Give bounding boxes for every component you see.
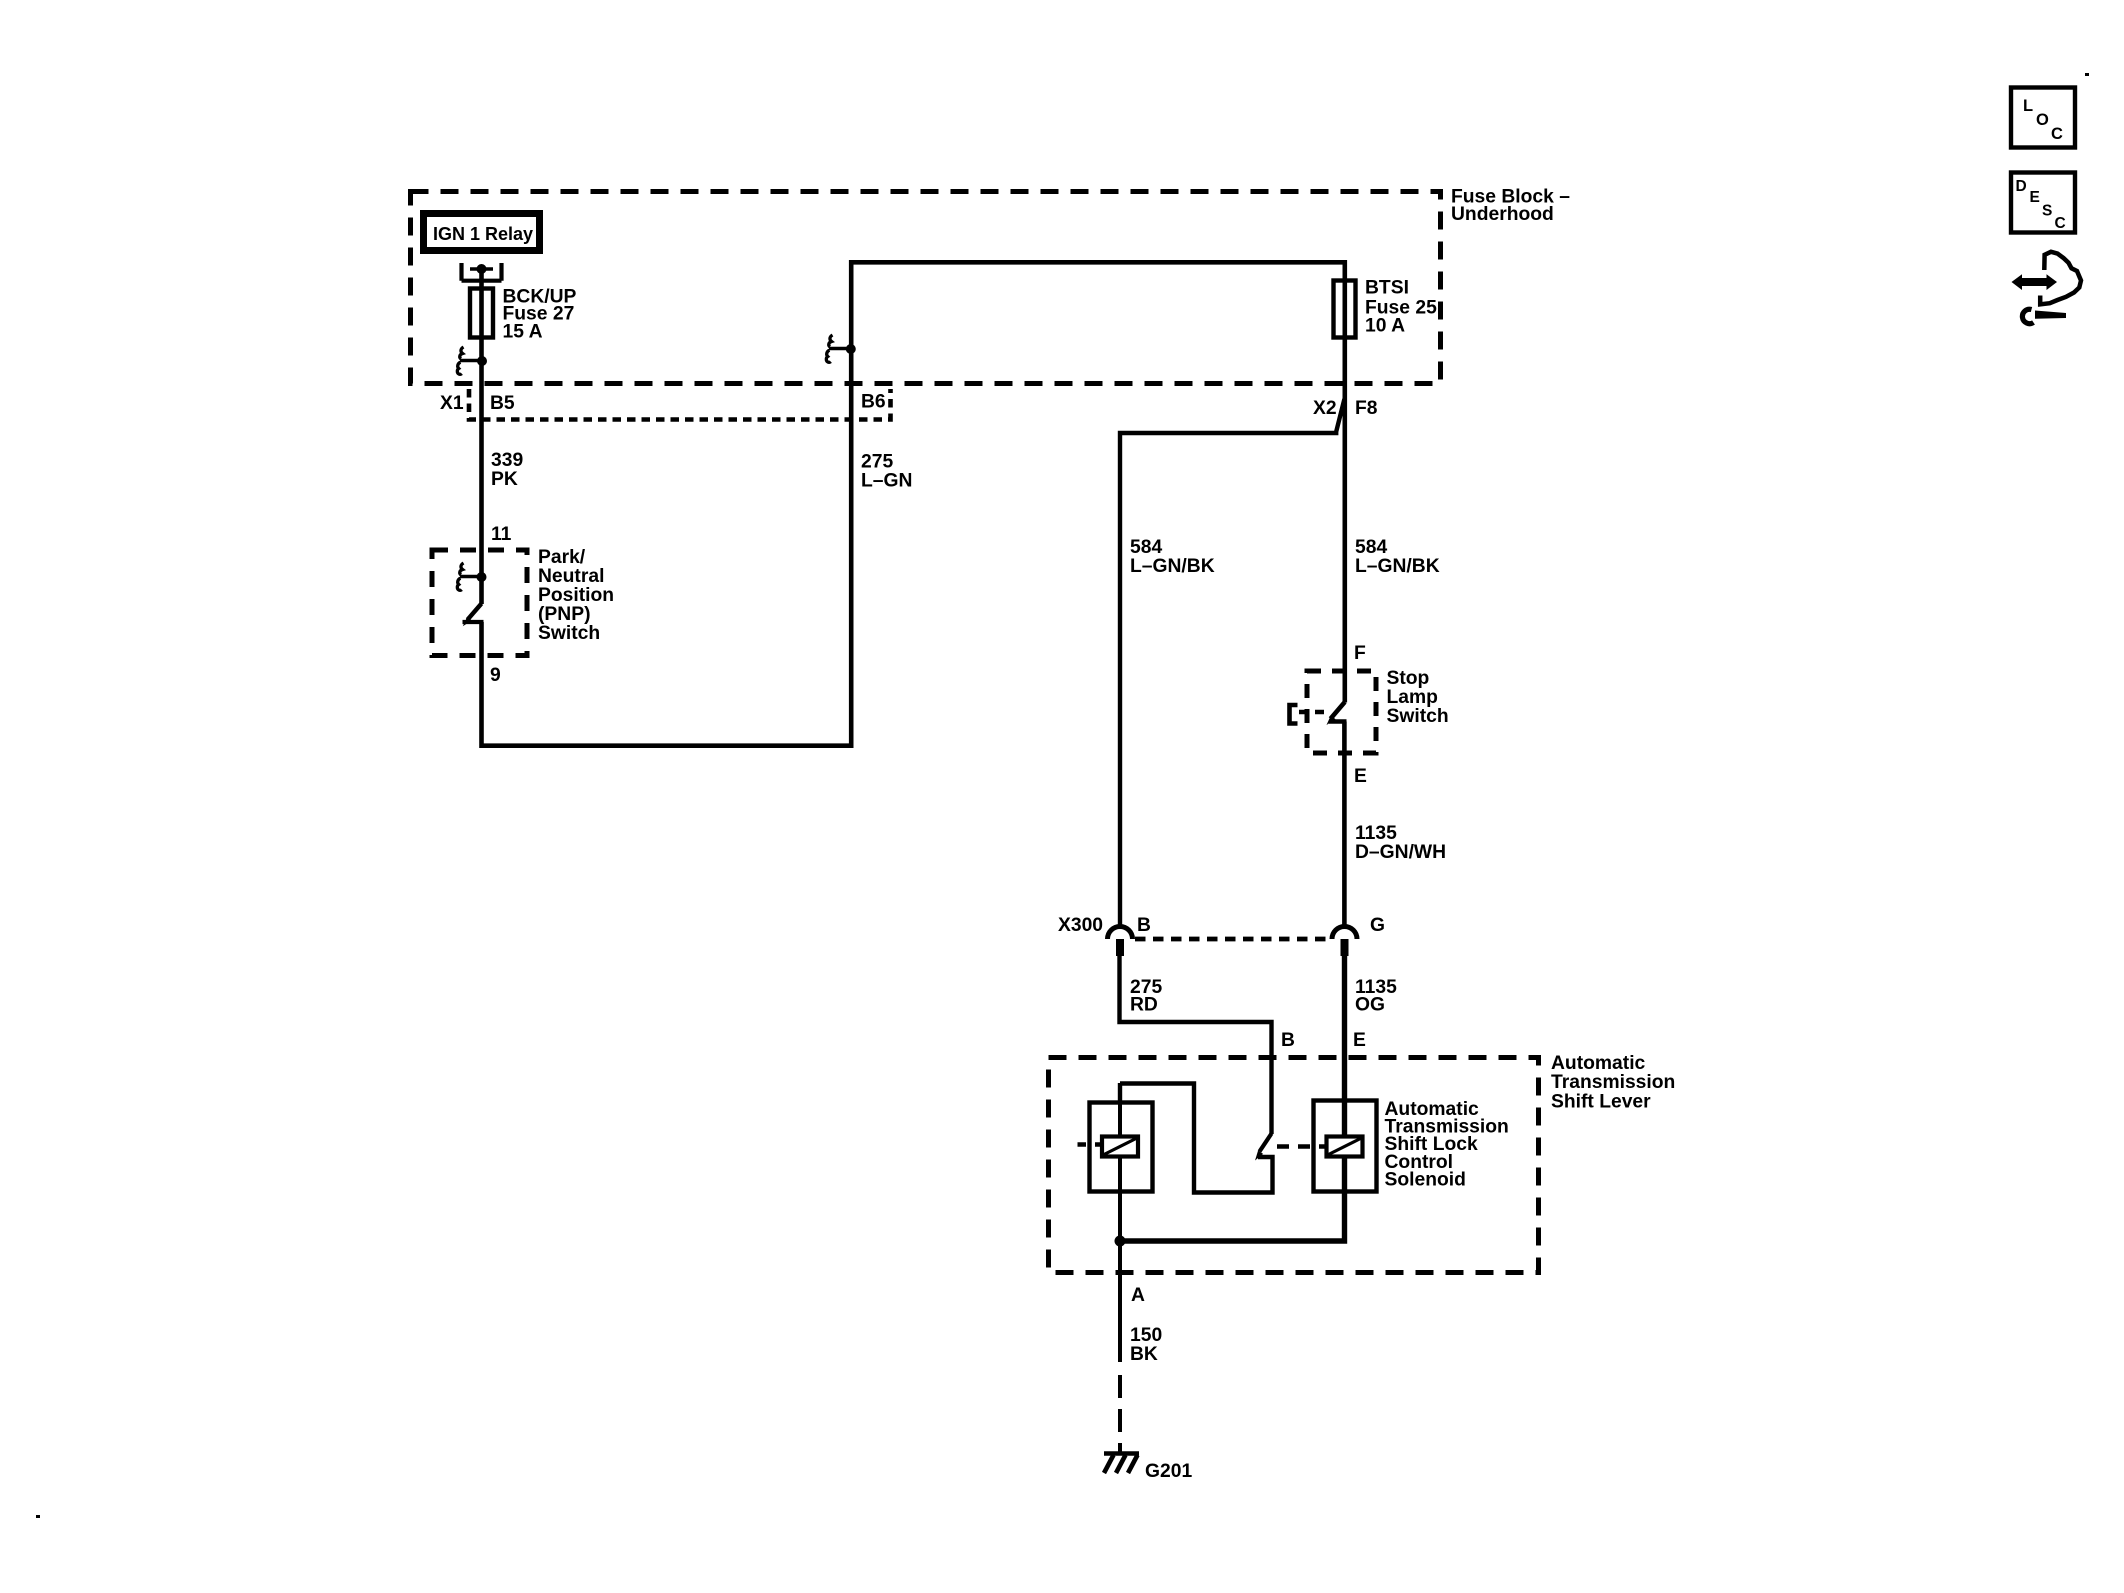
- label: B (shift lever pin): [1281, 1030, 1295, 1051]
- svg-text:OG: OG: [1355, 995, 1385, 1016]
- svg-text:G201: G201: [1145, 1461, 1192, 1482]
- splice terminal below fuse 27 (curl + dot): [457, 347, 487, 374]
- label: Stop Lamp Switch: [1387, 668, 1449, 727]
- wire: contact path from left solenoid top to switch lower contact: [1120, 1083, 1273, 1193]
- svg-text:B5: B5: [490, 393, 515, 414]
- label: X2 F8: [1313, 398, 1378, 419]
- svg-text:150: 150: [1130, 1325, 1162, 1346]
- svg-text:F: F: [1354, 643, 1366, 664]
- splice terminal at B6 inside fuse block (curl + dot): [826, 335, 855, 362]
- svg-text:E: E: [2030, 189, 2040, 206]
- svg-text:F8: F8: [1355, 398, 1378, 419]
- svg-text:Shift Lever: Shift Lever: [1551, 1092, 1651, 1113]
- svg-text:B6: B6: [861, 392, 886, 413]
- label: 584 L-GN/BK (left): [1130, 537, 1215, 577]
- stray scan dot top right: [2085, 73, 2089, 76]
- svg-text:L–GN/BK: L–GN/BK: [1355, 556, 1440, 577]
- label: G201: [1145, 1461, 1192, 1482]
- svg-text:E: E: [1353, 1030, 1366, 1051]
- label: X1 B5: [440, 393, 515, 414]
- svg-text:PK: PK: [491, 469, 518, 490]
- wire: 584 L-GN/BK branch from F8 junction left and down to X300 pin B: [1120, 399, 1344, 925]
- svg-text:RD: RD: [1130, 995, 1158, 1016]
- connector X300 dotted line: [1135, 937, 1329, 942]
- svg-text:X2: X2: [1313, 398, 1337, 419]
- label: 11 (PNP pin): [491, 524, 512, 545]
- label: B (X300 pin): [1137, 915, 1151, 936]
- svg-text:Stop: Stop: [1387, 668, 1430, 689]
- svg-text:Lamp: Lamp: [1387, 687, 1438, 708]
- label: G (X300 pin): [1370, 915, 1385, 936]
- stray scan dot bottom left: [36, 1515, 40, 1518]
- wire: left solenoid through-wire down to ground junction: [1118, 1100, 1122, 1362]
- svg-text:339: 339: [491, 450, 523, 471]
- label: 150 BK: [1130, 1325, 1162, 1365]
- svg-text:C: C: [2051, 125, 2063, 143]
- label: 275 L-GN: [861, 452, 912, 492]
- svg-text:C: C: [2055, 215, 2066, 232]
- svg-text:Neutral: Neutral: [538, 566, 604, 587]
- wire: 1135 OG from X300 G down to shift lever pin E (thick): [1120, 956, 1345, 1241]
- label: X300: [1058, 915, 1103, 936]
- connector X1/B5-B6 dotted line: [469, 389, 891, 420]
- svg-text:275: 275: [861, 452, 893, 473]
- right solenoid outer box: [1314, 1101, 1377, 1192]
- svg-text:BK: BK: [1130, 1344, 1158, 1365]
- label: 275 RD: [1130, 977, 1162, 1016]
- svg-text:O: O: [2036, 111, 2049, 129]
- svg-text:X300: X300: [1058, 915, 1103, 936]
- svg-text:Automatic: Automatic: [1551, 1053, 1646, 1074]
- svg-text:15 A: 15 A: [503, 322, 543, 343]
- left solenoid outer box: [1090, 1103, 1153, 1192]
- label: 339 PK: [491, 450, 523, 490]
- wire: dashed ground lead: [1118, 1375, 1122, 1452]
- svg-text:Park/: Park/: [538, 547, 586, 568]
- svg-text:S: S: [2042, 203, 2052, 220]
- relay contact terminal (cup bracket with dot): [462, 263, 502, 281]
- shift lock switch blade with arrow: [1255, 1134, 1272, 1161]
- svg-text:584: 584: [1355, 537, 1387, 558]
- label: Fuse Block - Underhood: [1451, 187, 1570, 226]
- label: BTSI Fuse 25 10 A: [1365, 278, 1437, 337]
- label: E (shift lever pin): [1353, 1030, 1366, 1051]
- svg-text:L–GN: L–GN: [861, 471, 912, 492]
- svg-text:BTSI: BTSI: [1365, 278, 1409, 299]
- connector X300 right half-circle (pin G): [1332, 926, 1357, 956]
- label: E (stop lamp switch pin): [1354, 766, 1367, 787]
- stop lamp switch dashed box: [1307, 671, 1376, 753]
- svg-text:Transmission: Transmission: [1551, 1072, 1675, 1093]
- label: Park/Neutral Position (PNP) Switch: [538, 547, 614, 644]
- svg-text:584: 584: [1130, 537, 1162, 558]
- svg-text:D: D: [2016, 178, 2027, 195]
- svg-text:Switch: Switch: [1387, 706, 1449, 727]
- IGN 1 Relay label box: [424, 214, 540, 251]
- PNP switch dashed box: [432, 550, 527, 656]
- ground symbol G201: [1104, 1454, 1139, 1474]
- junction dot at ground wire: [1115, 1236, 1126, 1247]
- stop lamp switch blade with arrow: [1327, 702, 1347, 725]
- mechanical linkage dashed (blade to right solenoid): [1277, 1144, 1326, 1149]
- svg-text:Underhood: Underhood: [1451, 204, 1554, 225]
- label: BCK/UP Fuse 27 15 A: [503, 287, 577, 343]
- svg-text:Switch: Switch: [538, 623, 600, 644]
- label: B6: [861, 392, 886, 413]
- label: F (stop lamp switch pin): [1354, 643, 1366, 664]
- svg-text:L: L: [2023, 97, 2033, 115]
- right solenoid coil (box with diagonal): [1327, 1137, 1363, 1157]
- left solenoid coil (box with diagonal): [1102, 1137, 1138, 1157]
- svg-text:1135: 1135: [1355, 823, 1397, 844]
- svg-text:D–GN/WH: D–GN/WH: [1355, 842, 1446, 863]
- svg-text:E: E: [1354, 766, 1367, 787]
- stop lamp switch brake pedal bracket and linkage: [1290, 705, 1325, 724]
- wire: 275 RD from X300 B down and right to shift lever pin B: [1120, 956, 1272, 1134]
- svg-text:B: B: [1137, 915, 1151, 936]
- wire: stop lamp switch output E down to X300 pin G: [1342, 722, 1347, 926]
- mechanical linkage dashes left of left solenoid: [1078, 1142, 1104, 1147]
- svg-text:Position: Position: [538, 585, 614, 606]
- fuse F25 symbol (BTSI): [1334, 281, 1356, 338]
- automatic transmission shift lever dashed box: [1049, 1058, 1539, 1273]
- svg-text:A: A: [1131, 1285, 1145, 1306]
- wire: 339 PK circuit from IGN 1 relay down to PNP switch: [479, 267, 484, 604]
- LOC icon box: [2011, 88, 2075, 148]
- svg-text:Solenoid: Solenoid: [1385, 1170, 1466, 1191]
- label: 1135 OG: [1355, 977, 1397, 1016]
- label: A (shift lever pin): [1131, 1285, 1145, 1306]
- svg-text:X1: X1: [440, 393, 464, 414]
- svg-text:L–GN/BK: L–GN/BK: [1130, 556, 1215, 577]
- PNP switch blade with arrow: [463, 604, 484, 627]
- svg-text:9: 9: [490, 665, 501, 686]
- PNP switch contact (curl + dot on wire): [457, 563, 486, 590]
- connector X300 left half-circle (pin B): [1108, 926, 1133, 956]
- svg-text:G: G: [1370, 915, 1385, 936]
- fuse block - underhood dashed box: [411, 192, 1441, 384]
- label: 584 L-GN/BK (right): [1355, 537, 1440, 577]
- wire: from PNP switch pin 9 down, right, up to fuse block B6, across to BTSI fuse: [482, 262, 1345, 745]
- label: Automatic Transmission Shift Lever: [1551, 1053, 1675, 1113]
- label: 9 (PNP pin): [490, 665, 501, 686]
- checking/repair icon: double arrow, outline arrow, wrench: [2012, 252, 2082, 324]
- svg-text:IGN 1 Relay: IGN 1 Relay: [433, 224, 533, 244]
- label: 1135 D-GN/WH: [1355, 823, 1446, 863]
- DESC icon box: [2011, 173, 2075, 233]
- svg-text:11: 11: [491, 524, 512, 545]
- svg-text:10 A: 10 A: [1365, 316, 1405, 337]
- svg-text:(PNP): (PNP): [538, 604, 591, 625]
- svg-text:B: B: [1281, 1030, 1295, 1051]
- label: Automatic Transmission Shift Lock Control Solenoid: [1385, 1099, 1509, 1191]
- fuse F27 symbol: [470, 289, 493, 338]
